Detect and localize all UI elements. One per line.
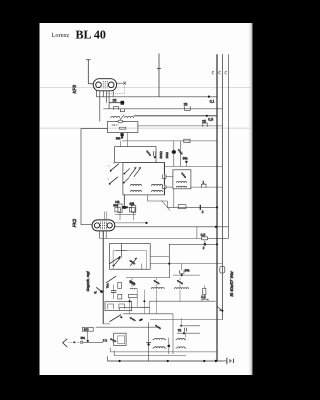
resistor box 25	[184, 139, 190, 143]
wire y=140.9	[122, 140, 217, 142]
tube V1 FK3	[93, 79, 116, 91]
coils row2 left	[130, 190, 141, 191]
wire y=244.3	[169, 243, 217, 245]
wire y=102.7 with blob	[109, 102, 124, 104]
bead resistor x=173.8	[173, 141, 175, 167]
wire y=96.8 to bus	[96, 96, 217, 98]
stem and blob	[204, 240, 206, 244]
out coils R row1	[176, 338, 187, 339]
hatched R right	[129, 280, 136, 286]
tube V2 FK2	[92, 220, 115, 231]
wire V1 to x mark	[117, 82, 123, 84]
svg-text:5%: 5%	[185, 269, 190, 273]
hatched R in out box	[154, 324, 161, 330]
svg-text:1: 1	[202, 180, 204, 184]
resistor box mid	[118, 282, 122, 288]
wire V2 right top	[115, 222, 146, 224]
bracket left b	[162, 185, 166, 189]
out coils L row1	[152, 338, 166, 339]
var cap arrow 1	[129, 168, 136, 177]
wire IF2 right with cap 1	[191, 186, 223, 188]
arrow between coils	[120, 115, 124, 120]
svg-text:25: 25	[184, 102, 188, 106]
var cap arrow A	[113, 258, 120, 266]
bracket left a	[162, 174, 166, 178]
svg-text:FK2: FK2	[72, 218, 77, 227]
var cap arrow 2	[134, 168, 141, 177]
wire y=162.6	[156, 162, 165, 164]
out stubs	[132, 278, 180, 288]
grid wire to V2	[81, 129, 107, 225]
svg-text:M1: M1	[130, 202, 135, 206]
svg-text:Ton: Ton	[106, 283, 110, 288]
tube V2 pins	[100, 231, 107, 239]
IF2 box	[173, 170, 191, 189]
cap below IF1	[121, 133, 124, 136]
wire V2 anode	[115, 226, 229, 228]
stub anode to capline	[196, 227, 198, 239]
wire y=238.5	[100, 238, 202, 240]
coils row1 left	[130, 185, 141, 186]
svg-text:75: 75	[178, 328, 182, 332]
vertical x=173.8 low	[173, 189, 175, 208]
wire y=207.4 with box 50	[167, 206, 217, 208]
dashed lead	[69, 341, 81, 343]
switch top audio	[109, 257, 119, 264]
component on bus2	[220, 266, 225, 273]
wire y=125.9	[138, 125, 223, 127]
input box	[114, 333, 126, 345]
bus line 1	[216, 54, 218, 361]
pickup bracket	[63, 339, 68, 347]
svg-text:5%: 5%	[116, 137, 121, 141]
diagonal near box	[162, 201, 171, 211]
verticals from output row	[130, 290, 180, 314]
switch bottom	[110, 315, 122, 322]
heavy cathode line	[102, 231, 104, 324]
svg-text:nf: nf	[94, 291, 97, 295]
wire grid cap V1	[86, 60, 93, 84]
hatched resistor x=180.3	[179, 141, 181, 167]
cap bars in box	[154, 151, 156, 156]
wire y=301.2	[149, 300, 216, 302]
mid output wires	[120, 307, 173, 313]
coils row1 right	[152, 185, 163, 186]
tuning top box	[115, 147, 156, 163]
svg-text:25: 25	[113, 99, 117, 103]
bus terminal letters	[212, 71, 227, 74]
IF1 coils	[111, 116, 120, 117]
vertical x=164.2 stubs	[163, 163, 165, 195]
svg-text:KF3: KF3	[72, 85, 77, 94]
short wire y=201	[147, 195, 167, 208]
svg-text:Gegenk. regl: Gegenk. regl	[86, 271, 90, 291]
cap bars mid	[111, 291, 117, 293]
bottom bus	[107, 360, 223, 362]
coil glyph inside	[118, 120, 123, 123]
cluster above out3	[181, 264, 183, 270]
switch arm 1	[111, 164, 119, 171]
wire y=108.8	[103, 108, 222, 110]
svg-text:0,1: 0,1	[210, 99, 215, 103]
wire y=263.6	[150, 263, 222, 265]
terminal below tuning	[123, 195, 125, 206]
box 100	[82, 327, 93, 331]
out coils L row2	[152, 347, 166, 348]
bracket cap	[114, 107, 119, 110]
switch 2	[106, 276, 116, 283]
switch arm 2	[110, 177, 118, 184]
node dot	[208, 96, 210, 98]
bus line 2	[221, 54, 223, 319]
bus line 3	[228, 54, 230, 238]
volume box	[110, 244, 151, 270]
boxes beside terminal	[115, 208, 120, 212]
svg-text:2 k: 2 k	[103, 338, 108, 342]
svg-text:25: 25	[202, 119, 206, 123]
arrow to bus2	[217, 306, 221, 310]
wire y=115.8	[134, 115, 217, 117]
bracket cap 25b	[203, 123, 207, 127]
var cap arrow B	[130, 258, 137, 266]
switch mid	[96, 287, 101, 291]
dotted arc	[109, 259, 113, 264]
x mark	[123, 82, 126, 85]
svg-text:100: 100	[84, 328, 89, 332]
node dot	[185, 161, 187, 163]
coil out2	[151, 288, 164, 289]
svg-text:2: 2	[202, 210, 204, 214]
tuning main box	[123, 163, 165, 195]
svg-text:BL 40: BL 40	[76, 28, 106, 42]
coils row2 right	[152, 190, 163, 191]
svg-text:Lorenz: Lorenz	[52, 32, 70, 39]
coil out3	[174, 288, 188, 289]
bracket cap 2	[120, 109, 124, 112]
svg-text:Bl 40a/07 War: Bl 40a/07 War	[229, 271, 234, 297]
hatched R out1	[129, 279, 136, 285]
out coils R row2	[176, 347, 187, 348]
wire antenna vertical	[157, 54, 161, 97]
bottom wires	[110, 352, 217, 356]
svg-text:5%: 5%	[183, 157, 188, 161]
hatched R out2	[153, 279, 160, 285]
hatched resistor in box	[145, 150, 151, 157]
resistor 2,5	[203, 288, 206, 294]
wire y=319.6	[150, 319, 222, 321]
vertical x=141.8	[141, 264, 143, 270]
svg-text:300Ω: 300Ω	[159, 150, 163, 158]
IF can T1	[107, 122, 137, 133]
battery symbol	[227, 358, 234, 365]
tube V1 pins	[97, 90, 114, 121]
IF2 coils row1	[176, 182, 186, 183]
transformer feed vertical	[148, 322, 150, 361]
hatched resistor in IF2	[180, 172, 186, 179]
box section	[105, 302, 132, 311]
connecting wires	[96, 324, 160, 327]
hatched R out3	[176, 279, 183, 285]
svg-text:2: 2	[203, 246, 205, 250]
components above tube V2	[118, 204, 122, 212]
extra switch contacts inside box	[124, 168, 130, 183]
terminal circle	[80, 341, 82, 343]
box 50	[128, 294, 137, 297]
page	[40, 23, 253, 375]
output row wire	[126, 277, 170, 279]
svg-text:2,5: 2,5	[201, 295, 206, 299]
cap tick	[199, 205, 201, 210]
coil small	[130, 288, 137, 289]
flat cap 0,5	[202, 237, 208, 240]
capacitor blob	[121, 101, 125, 105]
svg-text:5%: 5%	[81, 336, 86, 340]
svg-text:0,5: 0,5	[208, 117, 213, 121]
verticals to tuning top box	[121, 133, 128, 147]
centre junction	[168, 345, 171, 348]
svg-text:M3: M3	[115, 200, 120, 204]
hatched R bottom	[129, 316, 136, 322]
svg-text:1MΩ: 1MΩ	[165, 151, 169, 158]
hatched R top audio	[129, 259, 136, 265]
cap T inside	[116, 244, 127, 258]
svg-text:0,5: 0,5	[201, 233, 206, 237]
IF2 coils row2	[176, 186, 186, 187]
input wires	[83, 331, 103, 342]
stubs into tube V2 top	[105, 212, 107, 220]
scan artifact lines	[40, 86, 252, 88]
bracket cap 25	[185, 106, 191, 110]
